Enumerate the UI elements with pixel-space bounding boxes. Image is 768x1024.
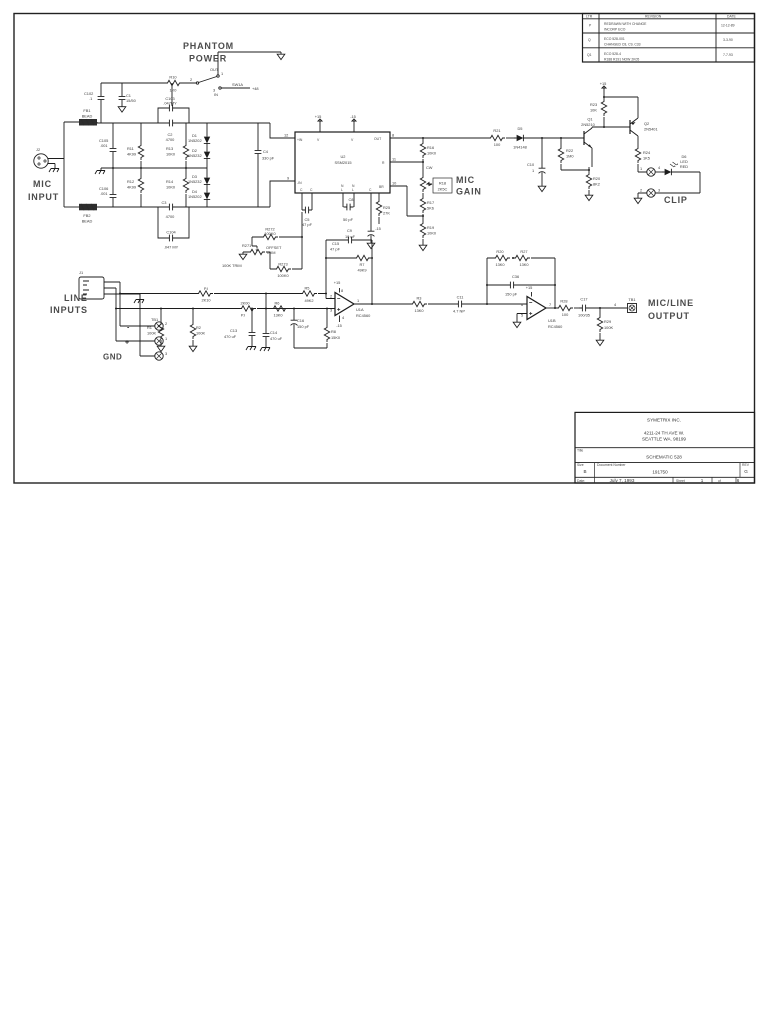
svg-text:REDRAWN WITH CHANGE: REDRAWN WITH CHANGE	[604, 22, 647, 26]
op-amp U1A	[335, 293, 354, 316]
svg-text:50 pF: 50 pF	[343, 217, 354, 222]
wire row B	[116, 308, 335, 310]
resistor R20	[588, 169, 590, 171]
svg-text:-IN: -IN	[297, 181, 302, 185]
chassis ground mid	[95, 168, 105, 174]
wire U1A out	[354, 303, 410, 305]
svg-text:C9: C9	[347, 228, 352, 233]
svg-text:1N5232: 1N5232	[188, 153, 202, 158]
svg-text:C4: C4	[263, 149, 269, 154]
svg-text:GAIN: GAIN	[456, 187, 482, 197]
svg-text:MIC: MIC	[33, 179, 52, 189]
svg-text:POWER: POWER	[189, 54, 227, 64]
svg-text:2: 2	[165, 321, 167, 326]
svg-text:5K6: 5K6	[427, 206, 434, 211]
svg-text:R20: R20	[496, 249, 504, 254]
svg-text:J2: J2	[36, 147, 40, 152]
svg-text:1: 1	[221, 71, 223, 76]
svg-text:1N5232: 1N5232	[188, 179, 202, 184]
wire row A	[120, 293, 326, 295]
capacitor C11	[455, 301, 465, 308]
resistor R28	[556, 305, 573, 310]
svg-text:FB2: FB2	[83, 213, 90, 218]
svg-text:C10: C10	[527, 162, 535, 167]
svg-text:ECO 528-4: ECO 528-4	[604, 52, 621, 56]
svg-text:LINE: LINE	[64, 293, 88, 303]
svg-text:1K5: 1K5	[643, 156, 650, 161]
svg-text:2: 2	[190, 77, 192, 82]
resistor 2K00 PI	[239, 306, 256, 311]
svg-text:8: 8	[341, 288, 343, 293]
wire mid rail	[101, 167, 207, 169]
svg-text:R14: R14	[166, 179, 174, 184]
capacitor C2 (in line)	[166, 120, 176, 127]
svg-text:INPUTS: INPUTS	[50, 305, 88, 315]
svg-text:4.7 NP: 4.7 NP	[453, 309, 465, 314]
svg-text:100: 100	[494, 142, 501, 147]
connector pin 1	[647, 168, 655, 176]
svg-text:10K0: 10K0	[427, 231, 437, 236]
svg-text:R25: R25	[383, 205, 390, 210]
svg-text:Sheet: Sheet	[676, 479, 685, 483]
svg-text:CLIP: CLIP	[664, 195, 688, 205]
svg-text:7-7-93: 7-7-93	[723, 53, 733, 57]
svg-text:470 uF: 470 uF	[270, 336, 283, 341]
ground under C1	[118, 105, 126, 113]
capacitor C4	[255, 147, 262, 157]
svg-text:Document Number: Document Number	[597, 463, 626, 467]
terminal TB1 plus	[155, 337, 163, 345]
capacitor C16	[294, 309, 327, 349]
diode D1	[204, 134, 210, 146]
svg-text:C14: C14	[270, 330, 278, 335]
svg-text:1: 1	[357, 298, 359, 303]
svg-text:2N5401: 2N5401	[644, 127, 658, 132]
svg-text:C8: C8	[349, 197, 354, 202]
svg-text:3: 3	[165, 351, 167, 356]
svg-text:3: 3	[658, 188, 660, 193]
svg-text:R273: R273	[278, 262, 287, 267]
switch SW1A	[196, 82, 198, 84]
wire bottom rail	[97, 206, 270, 208]
svg-text:Q2: Q2	[644, 121, 649, 126]
resistor R11	[138, 143, 143, 160]
svg-text:B: B	[583, 469, 586, 474]
resistor R5	[300, 291, 317, 296]
svg-text:100K: 100K	[604, 325, 613, 330]
svg-text:C17: C17	[580, 297, 587, 302]
resistor R7	[326, 257, 372, 259]
svg-text:BEAD: BEAD	[82, 219, 93, 224]
svg-text:FB1: FB1	[83, 108, 90, 113]
svg-text:C16: C16	[297, 318, 304, 323]
svg-text:150 pF: 150 pF	[297, 324, 310, 329]
svg-text:C36: C36	[512, 274, 519, 279]
svg-text:12-12-89: 12-12-89	[721, 24, 735, 28]
capacitor C8	[343, 193, 354, 207]
svg-text:10 uF: 10 uF	[345, 234, 356, 239]
svg-text:U1B: U1B	[548, 318, 556, 323]
svg-text:100K: 100K	[147, 331, 156, 336]
svg-text:R2: R2	[196, 325, 201, 330]
resistor PI 2K10	[196, 291, 213, 296]
svg-text:C13: C13	[230, 328, 237, 333]
resistor R17	[420, 196, 425, 213]
svg-text:.001: .001	[100, 191, 108, 196]
wire U2 BR pin	[390, 186, 423, 216]
svg-text:DATE: DATE	[727, 15, 737, 19]
svg-text:+48: +48	[252, 86, 259, 91]
svg-text:191750: 191750	[652, 470, 668, 475]
svg-text:U1A: U1A	[356, 307, 364, 312]
svg-text:+15: +15	[526, 285, 533, 290]
svg-text:ECO 528-001: ECO 528-001	[604, 37, 625, 41]
svg-text:P.I: P.I	[241, 313, 245, 318]
capacitor C13	[251, 309, 253, 345]
svg-text:3: 3	[213, 88, 215, 93]
svg-text:R271: R271	[242, 243, 251, 248]
wire mic input bus	[63, 122, 65, 207]
svg-text:+15: +15	[334, 280, 341, 285]
resistor R14	[183, 176, 188, 193]
svg-text:1: 1	[165, 336, 167, 341]
svg-text:RC4560: RC4560	[356, 313, 371, 318]
svg-text:BEAD: BEAD	[82, 114, 93, 119]
resistor R6	[271, 306, 288, 311]
capacitor C103 bypass loop	[158, 108, 189, 123]
resistor R272	[261, 234, 278, 239]
resistor R1	[160, 309, 162, 345]
svg-text:V: V	[351, 138, 354, 142]
svg-text:SEATTLE WA. 98199: SEATTLE WA. 98199	[642, 437, 686, 442]
wire U2 R pin	[390, 161, 423, 163]
LED D6	[655, 171, 662, 173]
svg-text:R17: R17	[427, 200, 434, 205]
capacitor C36	[487, 284, 555, 286]
ground J2 shell	[49, 166, 59, 172]
ground under C9	[367, 241, 375, 249]
svg-text:R8: R8	[331, 329, 336, 334]
svg-text:OUT: OUT	[374, 137, 381, 141]
transistor Q2	[629, 120, 631, 134]
svg-text:Q: Q	[588, 38, 591, 42]
svg-text:15K0: 15K0	[331, 335, 341, 340]
svg-text:10K0: 10K0	[166, 185, 176, 190]
svg-text:8: 8	[392, 133, 394, 138]
svg-text:Title: Title	[577, 449, 583, 453]
svg-text:+15: +15	[315, 114, 322, 119]
wire to U2 inputs	[270, 123, 295, 207]
wire input busses	[116, 282, 155, 356]
resistor R29	[599, 308, 601, 338]
svg-text:CW: CW	[426, 165, 433, 170]
svg-text:R11: R11	[127, 146, 134, 151]
svg-text:MIC/LINE: MIC/LINE	[648, 298, 694, 308]
svg-text:R20: R20	[593, 176, 601, 181]
svg-text:Date:: Date:	[577, 479, 585, 483]
svg-text:TRIM: TRIM	[266, 250, 276, 255]
svg-text:49K9: 49K9	[357, 268, 366, 273]
svg-text:R13: R13	[166, 146, 173, 151]
svg-text:R: R	[382, 161, 385, 165]
svg-text:1: 1	[640, 166, 642, 171]
svg-text:R3: R3	[417, 296, 422, 301]
svg-text:Size: Size	[577, 463, 584, 467]
svg-text:4K99: 4K99	[127, 152, 136, 157]
svg-text:27K: 27K	[383, 211, 390, 216]
svg-text:13K0: 13K0	[495, 262, 505, 267]
svg-text:1: 1	[532, 168, 534, 173]
svg-text:IN: IN	[214, 92, 218, 97]
svg-text:R24: R24	[643, 150, 651, 155]
ground under C10	[538, 184, 546, 192]
resistor R25	[378, 193, 380, 224]
transistor Q1	[583, 131, 585, 145]
svg-text:U2: U2	[341, 154, 346, 159]
svg-text:PHANTOM: PHANTOM	[183, 41, 234, 51]
power +15 U1A	[339, 288, 341, 293]
svg-text:1N4148: 1N4148	[513, 145, 527, 150]
svg-text:R21: R21	[493, 128, 500, 133]
resistor R27	[513, 255, 530, 260]
resistor R22	[561, 138, 589, 170]
svg-text:LTR: LTR	[586, 15, 593, 19]
svg-text:2: 2	[640, 188, 642, 193]
svg-text:SW1A: SW1A	[232, 82, 243, 87]
ground at phantom top	[277, 52, 285, 60]
op-amp U1B	[527, 297, 546, 320]
svg-text:+15: +15	[600, 81, 607, 86]
svg-text:SYMETRIX INC.: SYMETRIX INC.	[647, 418, 681, 423]
svg-text:D5: D5	[518, 126, 523, 131]
svg-text:R188 R191 NOW 2K05: R188 R191 NOW 2K05	[604, 58, 639, 62]
svg-text:4: 4	[614, 302, 617, 307]
svg-text:2: 2	[330, 294, 332, 299]
resistor R2	[192, 309, 194, 345]
svg-text:R19: R19	[427, 225, 434, 230]
svg-text:L: L	[352, 188, 354, 192]
svg-text:C3: C3	[162, 200, 167, 205]
resistor R16	[422, 138, 424, 162]
svg-text:R16: R16	[427, 145, 434, 150]
resistor R19	[422, 216, 424, 221]
wire U2 out	[390, 137, 488, 139]
diode D3	[204, 175, 210, 187]
svg-text:-15: -15	[336, 323, 342, 328]
svg-text:INCORP ECO: INCORP ECO	[604, 28, 626, 32]
svg-text:1N5202: 1N5202	[188, 194, 202, 199]
svg-text:.1: .1	[89, 96, 92, 101]
svg-text:2K5C: 2K5C	[438, 187, 448, 192]
svg-text:3: 3	[330, 308, 332, 313]
svg-text:R28: R28	[560, 299, 567, 304]
capacitor C105	[110, 145, 117, 155]
svg-text:1N5202: 1N5202	[188, 138, 202, 143]
svg-text:4: 4	[658, 165, 661, 170]
feedback loop U1B	[487, 258, 555, 308]
svg-text:3-3-90: 3-3-90	[723, 38, 733, 42]
svg-text:P.I: P.I	[204, 286, 208, 291]
ground under R20	[585, 193, 593, 201]
ground under connector	[634, 196, 642, 204]
capacitor C3 (in line)	[166, 204, 176, 211]
svg-text:6: 6	[521, 302, 523, 307]
wire phantom rail	[101, 83, 196, 123]
power -15 pin U2	[353, 126, 355, 132]
svg-text:470 uF: 470 uF	[224, 334, 237, 339]
svg-text:V: V	[317, 138, 320, 142]
svg-text:13K0: 13K0	[519, 262, 529, 267]
svg-text:C104: C104	[166, 230, 176, 235]
svg-text:+IN: +IN	[297, 138, 303, 142]
svg-text:Q1: Q1	[587, 117, 592, 122]
svg-text:.047MY: .047MY	[163, 101, 177, 106]
svg-text:6: 6	[737, 478, 740, 483]
svg-text:2N5210: 2N5210	[581, 122, 595, 127]
svg-text:R6: R6	[275, 301, 280, 306]
svg-text:100: 100	[562, 312, 569, 317]
terminal TB1 gnd	[155, 352, 163, 360]
power +15 pin U2	[319, 126, 321, 132]
svg-text:13K0: 13K0	[414, 308, 424, 313]
diode D2	[204, 149, 210, 161]
svg-text:MIC: MIC	[456, 175, 475, 185]
svg-text:G: G	[744, 469, 748, 474]
diode D5	[514, 135, 526, 141]
svg-text:INPUT: INPUT	[28, 192, 59, 202]
svg-text:11: 11	[392, 157, 396, 162]
svg-text:P: P	[589, 24, 592, 28]
svg-text:100K0: 100K0	[264, 231, 276, 236]
svg-text:4: 4	[342, 315, 345, 320]
chassis ground J1	[134, 297, 144, 303]
power +15 U1B	[531, 292, 533, 297]
feedback loop U1A: capacitor C15	[326, 240, 372, 304]
svg-text:9: 9	[287, 176, 289, 181]
svg-text:47 pF: 47 pF	[302, 222, 313, 227]
svg-text:GND: GND	[103, 353, 122, 362]
svg-text:10: 10	[392, 181, 397, 186]
svg-text:8K2: 8K2	[593, 182, 600, 187]
svg-text:1M0: 1M0	[566, 154, 574, 159]
svg-text:R18: R18	[439, 181, 446, 186]
capacitor C1	[119, 93, 126, 103]
svg-text:of: of	[718, 479, 721, 483]
svg-text:RC4560: RC4560	[548, 324, 563, 329]
capacitor C17	[579, 305, 589, 312]
power -15 U1A	[339, 316, 341, 323]
svg-text:REV: REV	[742, 463, 750, 467]
svg-text:100K: 100K	[196, 331, 205, 336]
capacitor C10	[541, 138, 543, 184]
svg-text:R10: R10	[169, 75, 177, 80]
svg-text:TB1: TB1	[151, 317, 158, 322]
capacitor C102	[98, 93, 105, 103]
svg-text:R29: R29	[604, 319, 611, 324]
svg-text:Q1: Q1	[587, 53, 592, 57]
title block page 1	[575, 412, 755, 483]
svg-text:-15: -15	[375, 226, 381, 231]
diode D4	[204, 190, 210, 202]
connector pin 2	[647, 189, 655, 197]
svg-text:.047 MY: .047 MY	[164, 245, 179, 250]
svg-text:C15: C15	[332, 241, 339, 246]
svg-text:L: L	[341, 188, 343, 192]
svg-text:R7: R7	[360, 262, 365, 267]
svg-text:R22: R22	[566, 148, 573, 153]
svg-text:+: +	[125, 340, 129, 347]
svg-text:10K0: 10K0	[427, 151, 437, 156]
svg-text:CHANGED C8, C9, C33: CHANGED C8, C9, C33	[604, 43, 641, 47]
page 1 border frame	[14, 14, 755, 484]
svg-text:10K: 10K	[590, 108, 597, 113]
ferrite bead FB1	[79, 119, 97, 126]
resistor R10	[165, 80, 182, 85]
svg-text:C: C	[310, 188, 313, 192]
resistor R24	[635, 146, 640, 163]
svg-text:49K2: 49K2	[304, 298, 313, 303]
svg-text:-15: -15	[350, 114, 356, 119]
svg-text:SCHEMATIC 528: SCHEMATIC 528	[646, 455, 682, 460]
svg-text:R1: R1	[147, 325, 152, 330]
svg-text:July 7, 1993: July 7, 1993	[610, 478, 635, 483]
svg-text:OUTPUT: OUTPUT	[648, 311, 690, 321]
capacitor C5	[302, 193, 312, 210]
svg-text:R5: R5	[305, 286, 310, 291]
svg-text:4211-24 TH AVE W.: 4211-24 TH AVE W.	[644, 431, 684, 436]
svg-text:TB1: TB1	[628, 297, 635, 302]
svg-text:4700: 4700	[166, 214, 175, 219]
svg-text:10K0: 10K0	[166, 152, 176, 157]
svg-text:330 pF: 330 pF	[262, 156, 275, 161]
svg-text:1: 1	[701, 478, 704, 483]
ground under R19	[419, 243, 427, 251]
svg-text:R27: R27	[520, 249, 527, 254]
resistor R8	[326, 309, 328, 349]
ground U1B pin5	[517, 314, 527, 321]
svg-text:100K TRIM: 100K TRIM	[222, 263, 242, 268]
svg-text:R23: R23	[590, 102, 597, 107]
svg-text:BR: BR	[379, 185, 384, 189]
svg-text:C: C	[300, 188, 303, 192]
svg-text:C11: C11	[457, 295, 464, 300]
svg-text:OUT: OUT	[210, 67, 219, 72]
wire top rail	[97, 122, 270, 124]
svg-text:2K00: 2K00	[240, 301, 250, 306]
resistor R3	[410, 301, 427, 306]
svg-text:.001: .001	[100, 143, 108, 148]
svg-text:REVISION: REVISION	[645, 15, 662, 19]
svg-text:SSM2015: SSM2015	[334, 160, 351, 165]
resistor R273	[274, 266, 291, 271]
resistor R23	[601, 99, 606, 116]
svg-text:4700: 4700	[166, 137, 175, 142]
svg-text:RED: RED	[680, 164, 688, 169]
resistor R20b	[493, 255, 510, 260]
svg-text:15/50: 15/50	[126, 98, 137, 103]
svg-text:2K10: 2K10	[201, 298, 211, 303]
capacitor C104 loop	[158, 207, 189, 238]
resistor R21	[488, 135, 505, 140]
capacitor C9	[370, 193, 372, 241]
op-amp U2 SSM2015	[295, 132, 390, 193]
wire U1B out	[546, 307, 556, 309]
svg-text:12: 12	[284, 133, 288, 138]
svg-text:47 pF: 47 pF	[330, 247, 341, 252]
svg-text:100K0: 100K0	[277, 273, 289, 278]
revision table	[583, 14, 755, 63]
svg-text:R12: R12	[127, 179, 134, 184]
